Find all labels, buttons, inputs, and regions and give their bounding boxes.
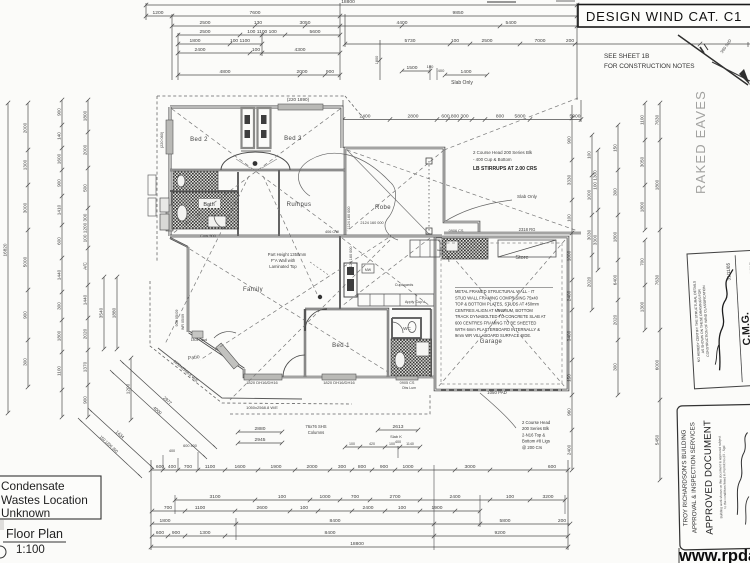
dim tiny row 447 [343, 442, 422, 449]
ensuite hatch [391, 339, 431, 376]
svg-text:100: 100 [451, 38, 459, 44]
svg-text:2945: 2945 [255, 437, 266, 443]
svg-text:Condensate: Condensate [1, 479, 65, 493]
svg-text:700: 700 [184, 464, 192, 470]
dim 2400/4300 row [176, 47, 342, 55]
svg-text:300: 300 [338, 464, 346, 470]
svg-text:TRACK DYNABOLTED TO CONCRETE S: TRACK DYNABOLTED TO CONCRETE SLAB AT [455, 314, 546, 319]
svg-text:300: 300 [23, 358, 28, 366]
svg-text:2800: 2800 [408, 114, 419, 120]
eave dashed verandah left [150, 281, 352, 404]
wall chamfer step [170, 238, 188, 247]
svg-text:1800: 1800 [613, 231, 618, 242]
svg-text:2124 160 000: 2124 160 000 [360, 221, 383, 225]
svg-text:400: 400 [395, 440, 401, 444]
left dim 3880 short [112, 275, 120, 351]
svg-text:600: 600 [57, 237, 62, 245]
condensate box [0, 476, 101, 520]
svg-text:1000: 1000 [403, 464, 414, 470]
svg-text:Bed 3: Bed 3 [284, 136, 302, 142]
left dim 3540 short [99, 275, 107, 351]
window family bottom 1 [244, 374, 282, 380]
svg-text:400: 400 [168, 464, 176, 470]
robe unit left [242, 108, 255, 148]
svg-text:STUD WALL FRAMING COMPRISING 7: STUD WALL FRAMING COMPRISING 75x40 [455, 295, 539, 300]
svg-text:MW: MW [365, 268, 372, 272]
svg-text:100: 100 [587, 151, 592, 159]
north arrow line [678, 35, 748, 85]
svg-text:2400: 2400 [195, 47, 206, 53]
svg-text:200 Series Blk: 200 Series Blk [522, 426, 550, 431]
svg-text:1804 Cavd: 1804 Cavd [191, 338, 208, 342]
svg-text:900: 900 [567, 136, 572, 144]
rake dash kitchen 1 [342, 238, 430, 306]
rake dash kitchen 2 [342, 238, 430, 306]
wall bed1 left [304, 309, 306, 377]
svg-text:TOP & BOTTOM PLATES, STUDS AT: TOP & BOTTOM PLATES, STUDS AT 450mm [455, 302, 540, 307]
svg-text:1050x2568.8 W/E: 1050x2568.8 W/E [246, 405, 278, 410]
wall main divider [170, 235, 442, 238]
garage structural note [455, 288, 553, 339]
svg-text:1900: 1900 [432, 505, 443, 511]
svg-text:31/11/05: 31/11/05 [726, 262, 732, 280]
robe unit right [258, 108, 271, 148]
right dim x645 [640, 101, 648, 232]
bdim row1 [149, 464, 570, 472]
top dim connector x750r [747, 42, 749, 47]
svg-text:2000: 2000 [297, 69, 308, 75]
svg-text:600: 600 [548, 464, 556, 470]
svg-text:3000: 3000 [465, 464, 476, 470]
svg-text:1400: 1400 [461, 69, 472, 75]
svg-text:6400: 6400 [613, 274, 618, 285]
bdim connector mid2 [433, 465, 435, 550]
bdim row2 [173, 494, 567, 502]
svg-text:1440: 1440 [83, 294, 88, 305]
svg-text:A/C: A/C [83, 261, 88, 269]
svg-text:CENTRES ALIGN AT MINIMUM, BOTT: CENTRES ALIGN AT MINIMUM, BOTTOM [455, 308, 533, 313]
top edge scrap 1 [487, 1, 516, 3]
svg-text:RAKED EAVES: RAKED EAVES [693, 90, 708, 194]
dim 1500 slab row [400, 65, 432, 73]
svg-text:@ 200 Crs: @ 200 Crs [522, 445, 542, 450]
svg-text:76x76 SHS: 76x76 SHS [305, 424, 326, 429]
svg-text:700: 700 [640, 258, 645, 266]
approved box edge line [678, 548, 680, 563]
top small vdim x380 [379, 40, 381, 80]
wall right wing top [345, 148, 479, 236]
diag dim 1434 [88, 408, 154, 469]
left wall fixtures [160, 198, 169, 212]
svg-text:9mm WR VILLABOARD SURFACE SIDE: 9mm WR VILLABOARD SURFACE SIDE. [455, 333, 531, 338]
svg-text:18800: 18800 [350, 541, 364, 547]
wall rumpus left [278, 170, 280, 236]
wall bedroom block outline [170, 107, 342, 148]
svg-text:(220 1890): (220 1890) [287, 97, 310, 102]
svg-text:Bath: Bath [203, 202, 214, 208]
svg-text:150: 150 [567, 374, 572, 382]
window chamfer door [216, 343, 239, 369]
diag dim 4000 [110, 370, 207, 459]
column grid dotted [428, 161, 430, 234]
verandah solid edge [158, 348, 302, 399]
svg-text:Laminated Top: Laminated Top [269, 264, 297, 269]
window ensuite bottom [396, 374, 418, 380]
top edge scrap 2 [556, 0, 575, 2]
svg-text:900: 900 [23, 311, 28, 319]
svg-text:3300: 3300 [593, 234, 598, 245]
window top wall [278, 104, 323, 110]
svg-text:600 800 300: 600 800 300 [441, 114, 468, 120]
svg-text:800: 800 [496, 114, 504, 120]
svg-text:3000: 3000 [23, 202, 28, 213]
leader curve head200 top [298, 153, 390, 196]
svg-text:SEE SHEET 1B: SEE SHEET 1B [604, 53, 649, 60]
svg-text:500: 500 [83, 184, 88, 192]
column sq bottom [426, 228, 432, 234]
svg-text:1820 DH16/DH16: 1820 DH16/DH16 [246, 380, 278, 385]
svg-text:100 1100: 100 1100 [230, 38, 250, 44]
exterior left scraps [148, 175, 156, 195]
bdim connector left [150, 460, 152, 550]
wc door arc [392, 322, 403, 333]
dim 2500/1100/5600 row [176, 29, 342, 37]
svg-text:16820: 16820 [3, 243, 8, 256]
top dim connector left [145, 3, 147, 20]
dim 1400 slab only [443, 69, 489, 77]
svg-text:1000: 1000 [587, 189, 592, 200]
svg-text:1800: 1800 [160, 518, 171, 524]
dim 2613 [376, 424, 420, 432]
svg-text:2600: 2600 [257, 505, 268, 511]
svg-text:1800: 1800 [655, 179, 660, 190]
approved document box [677, 404, 750, 550]
svg-text:908 05/09: 908 05/09 [175, 310, 179, 327]
svg-text:3050: 3050 [300, 20, 311, 26]
svg-text:Rumpus: Rumpus [287, 202, 312, 208]
top dim connector x262 [261, 33, 263, 56]
wall family bottom [244, 369, 434, 377]
svg-text:5400: 5400 [506, 20, 517, 26]
svg-text:1410: 1410 [57, 204, 62, 215]
svg-text:1140: 1140 [406, 442, 414, 446]
wall kitchen divider [339, 236, 341, 309]
wall family left [187, 247, 190, 332]
rake dash dome to family 1 [165, 176, 249, 344]
left dim col4 [83, 98, 91, 419]
svg-text:1100: 1100 [195, 505, 206, 511]
svg-text:150: 150 [613, 144, 618, 152]
bath label bg [199, 199, 220, 208]
left dim col3 [57, 98, 65, 392]
svg-text:1:100: 1:100 [16, 544, 45, 556]
leader garage note [480, 393, 516, 428]
cmg engineer box [687, 250, 750, 389]
svg-text:0906 CS: 0906 CS [449, 229, 464, 233]
svg-text:100: 100 [398, 505, 406, 511]
top dim connector x172 [171, 14, 173, 80]
dim 1800/1100 row [176, 38, 264, 46]
kitchen small box [362, 264, 374, 273]
svg-text:3100: 3100 [210, 494, 221, 500]
bath hatch lower [172, 192, 238, 229]
bath fixtures [177, 175, 185, 187]
svg-text:2400: 2400 [567, 444, 572, 455]
rake diagonal family 1 [172, 238, 388, 372]
svg-text:FOR CONSTRUCTION NOTES: FOR CONSTRUCTION NOTES [604, 63, 695, 70]
dim right wing row 2400-5000 [341, 114, 583, 122]
svg-text:5000: 5000 [23, 256, 28, 267]
svg-text:1124 160 000: 1124 160 000 [349, 247, 353, 270]
eave dashed verandah bottom2 [230, 393, 430, 414]
top dim connector x577 [576, 3, 578, 100]
svg-text:2400: 2400 [567, 290, 572, 301]
left dim col3b lower [60, 390, 64, 419]
svg-text:Family: Family [243, 287, 263, 293]
svg-text:100: 100 [252, 47, 260, 53]
svg-text:Part Height 1350mm: Part Height 1350mm [268, 252, 307, 257]
svg-text:9200: 9200 [495, 530, 506, 536]
bdim row5 [150, 530, 570, 538]
svg-text:406 OW: 406 OW [325, 230, 339, 234]
svg-text:1100: 1100 [640, 115, 645, 125]
dim 4800/2000/900 row [176, 69, 342, 77]
svg-text:130: 130 [254, 20, 262, 26]
svg-text:900: 900 [326, 69, 334, 75]
left edge gray mark [0, 520, 4, 530]
left dim 16820 outer [3, 101, 11, 415]
svg-text:2400: 2400 [363, 505, 374, 511]
svg-text:1900: 1900 [271, 464, 282, 470]
bdim risers row1 [162, 455, 164, 470]
garage door dashed [441, 389, 562, 391]
svg-text:100: 100 [506, 494, 514, 500]
bdim connector mid1 [235, 518, 237, 540]
svg-text:3200: 3200 [543, 494, 554, 500]
dim 2500/3050/4400/5400 row [170, 20, 579, 28]
svg-text:100: 100 [427, 64, 434, 69]
top dim connector x340 [339, 3, 341, 80]
svg-text:100 1200 300: 100 1200 300 [83, 213, 88, 242]
svg-text:960: 960 [567, 408, 572, 416]
laundry hatch [442, 238, 488, 259]
svg-text:200: 200 [558, 518, 566, 524]
svg-text:420: 420 [369, 442, 375, 446]
svg-text:1440: 1440 [57, 269, 62, 280]
eave dashed hip right wing [345, 96, 365, 120]
wall hall left [237, 172, 239, 236]
north arrow ticks [700, 47, 704, 53]
rake diagonal family 2 [200, 238, 388, 360]
svg-text:3050: 3050 [640, 156, 645, 167]
svg-text:(220 060): (220 060) [160, 131, 164, 148]
diag dim small [78, 418, 142, 478]
rake diagonal right wing 3 [444, 98, 578, 150]
svg-text:Bed 1: Bed 1 [332, 343, 350, 349]
svg-text:5450: 5450 [655, 434, 660, 445]
svg-text:900: 900 [57, 108, 62, 116]
svg-text:8400: 8400 [330, 518, 341, 524]
svg-text:Cow 900: Cow 900 [200, 233, 217, 238]
svg-text:F"A Wall with: F"A Wall with [271, 258, 296, 263]
diag dim 2977 [120, 360, 217, 449]
svg-text:100: 100 [278, 494, 286, 500]
svg-text:1800: 1800 [57, 330, 62, 341]
svg-text:1800: 1800 [190, 38, 201, 44]
rake dash dome to family 2 [263, 176, 317, 294]
chamfer door arc [214, 332, 236, 338]
svg-text:900: 900 [172, 530, 180, 536]
svg-text:3030: 3030 [587, 229, 592, 240]
svg-text:1800: 1800 [375, 56, 379, 64]
svg-text:100 1300: 100 1300 [593, 170, 598, 190]
dim 2945 [236, 437, 284, 445]
svg-text:2 Course Head: 2 Course Head [522, 420, 551, 425]
svg-text:5800: 5800 [500, 518, 511, 524]
svg-text:WC: WC [403, 326, 411, 331]
right dim x645b [640, 238, 648, 332]
laundry bench [410, 240, 440, 257]
svg-text:Robe: Robe [375, 205, 391, 211]
rake diagonal bedrooms 1 [172, 109, 340, 234]
dim 5730/2500/7000 row right [343, 38, 750, 46]
svg-text:800: 800 [358, 464, 366, 470]
svg-text:6000: 6000 [655, 359, 660, 370]
rake diagonal bedrooms 2 [172, 109, 340, 234]
svg-text:3400: 3400 [567, 330, 572, 341]
svg-text:Bed 2: Bed 2 [190, 137, 208, 143]
svg-text:100: 100 [567, 214, 572, 222]
bath hatch upper [173, 171, 218, 191]
wall ensuite right [430, 309, 432, 377]
svg-text:Apply Cup'd: Apply Cup'd [405, 300, 425, 304]
svg-text:600 400: 600 400 [183, 444, 197, 448]
svg-text:1300: 1300 [200, 530, 211, 536]
svg-text:Obs Lum: Obs Lum [402, 386, 416, 390]
wall laundry row [392, 308, 431, 310]
wall garage [435, 237, 568, 390]
svg-text:1100: 1100 [57, 366, 62, 376]
svg-text:2-N16 Top &: 2-N16 Top & [522, 432, 545, 437]
dim 1200/7600/9850 row [144, 10, 579, 18]
svg-text:Slab Only: Slab Only [451, 80, 473, 86]
svg-text:1500: 1500 [407, 65, 418, 71]
svg-text:2500: 2500 [482, 38, 493, 44]
svg-text:WITH 6mm PLASTERBOARD INTERNAL: WITH 6mm PLASTERBOARD INTERNALLY & [455, 327, 540, 332]
svg-text:900: 900 [83, 396, 88, 404]
svg-text:2020: 2020 [587, 276, 592, 287]
svg-text:200: 200 [566, 38, 574, 44]
svg-text:LB STIRRUPS AT 2.00 CRS: LB STIRRUPS AT 2.00 CRS [473, 166, 538, 172]
wall store garage top [444, 232, 581, 235]
svg-text:400: 400 [169, 449, 175, 453]
eave dashed connect [156, 236, 158, 262]
svg-text:5600: 5600 [310, 29, 321, 35]
svg-text:1820 DH16/DH16: 1820 DH16/DH16 [323, 380, 355, 385]
kitchen tall unit [344, 263, 357, 297]
bed1 door arc [305, 309, 327, 331]
hall door arc [221, 152, 290, 170]
svg-text:2000: 2000 [83, 144, 88, 155]
svg-text:1600: 1600 [57, 153, 62, 164]
top dim connector x178 [177, 33, 179, 80]
svg-text:140: 140 [57, 132, 62, 140]
right dim x618 [613, 123, 621, 397]
rake dash to verandah corner [230, 240, 390, 400]
rake diagonal garage 1 [438, 240, 565, 387]
svg-text:2613: 2613 [393, 424, 404, 430]
bdim row4 [150, 518, 572, 526]
svg-text:1100: 1100 [205, 464, 216, 470]
svg-text:2880: 2880 [255, 426, 266, 432]
window left wall 2 [166, 205, 173, 231]
svg-text:Store: Store [515, 255, 528, 261]
svg-text:2318 RG: 2318 RG [519, 227, 536, 232]
svg-text:Garage: Garage [480, 339, 503, 345]
scale symbol [0, 546, 6, 558]
svg-text:C.M.G.: C.M.G. [739, 312, 750, 346]
svg-text:2000: 2000 [307, 464, 318, 470]
svg-text:3330: 3330 [567, 174, 572, 185]
svg-text:1124 160 000: 1124 160 000 [347, 207, 351, 230]
right dim x660 [655, 101, 663, 482]
garage footing note [522, 420, 551, 450]
svg-text:300: 300 [613, 188, 618, 196]
rake diagonal garage 2 [438, 240, 565, 387]
bdim connector right [567, 460, 569, 550]
bdim row3 [150, 505, 482, 513]
wall bedroom left [169, 107, 172, 236]
dim 18800 overall top [144, 0, 579, 7]
svg-text:4400: 4400 [397, 20, 408, 26]
rake diagonal right wing 1 [347, 150, 578, 231]
wall bath bottom [170, 190, 238, 192]
svg-text:2020: 2020 [613, 314, 618, 325]
svg-text:WR 05/09: WR 05/09 [181, 314, 185, 330]
column sq top [426, 158, 432, 164]
svg-text:1300: 1300 [640, 301, 645, 312]
svg-text:2400: 2400 [360, 114, 371, 120]
svg-text:Bottom #8 Ligs: Bottom #8 Ligs [522, 439, 550, 444]
svg-text:1800: 1800 [640, 201, 645, 212]
kitchen bench row [358, 294, 434, 306]
robe shelf line [241, 150, 271, 152]
svg-text:- 400 Cup & Bottom: - 400 Cup & Bottom [473, 157, 512, 162]
svg-text:100: 100 [300, 505, 308, 511]
ceiling fan dot hall [253, 161, 258, 166]
svg-text:1300: 1300 [23, 159, 28, 170]
svg-text:Cupboards: Cupboards [395, 283, 414, 287]
svg-text:1050 PAD: 1050 PAD [487, 390, 507, 395]
svg-text:1600: 1600 [235, 464, 246, 470]
right dim x572 [567, 105, 575, 472]
svg-text:0905 CS: 0905 CS [400, 381, 415, 385]
wall bed1 [305, 309, 388, 377]
svg-text:100: 100 [349, 442, 355, 446]
wall wc room [392, 318, 421, 338]
design wind cat box [578, 5, 750, 28]
ceiling fan dot family [318, 295, 322, 299]
robe dashed diag [347, 150, 429, 234]
svg-text:1200: 1200 [153, 10, 164, 16]
svg-text:4300: 4300 [295, 47, 306, 53]
garage inner dashed [441, 243, 562, 384]
wall bed wing divider [170, 169, 345, 171]
svg-text:3540: 3540 [99, 307, 104, 318]
svg-text:Slab K: Slab K [390, 434, 402, 439]
svg-text:Floor Plan: Floor Plan [6, 527, 63, 541]
store diag rect [498, 240, 556, 257]
